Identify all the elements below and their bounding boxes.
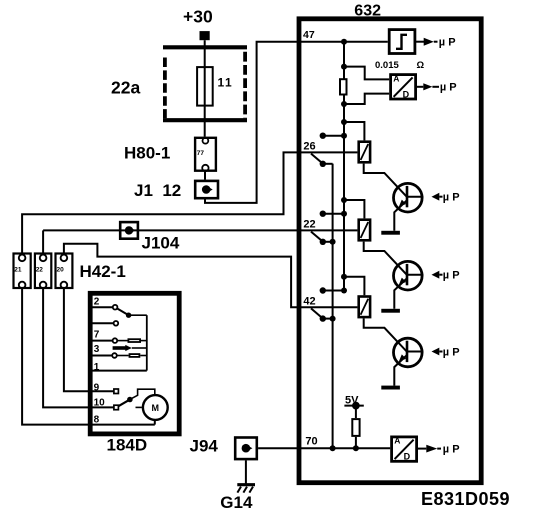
184D fuel pump motor M	[143, 395, 168, 420]
svg-text:D: D	[404, 452, 411, 462]
svg-text:11: 11	[218, 76, 234, 90]
svg-text:3: 3	[94, 344, 100, 355]
connector J104	[120, 222, 180, 252]
A/D converter U3 (pin 70)	[392, 436, 417, 462]
wire H42-1 pin20 to ECU pin 42	[64, 244, 358, 308]
184D second element row	[92, 353, 147, 358]
output transistor Q1	[394, 183, 424, 230]
svg-text:7: 7	[94, 330, 100, 341]
pin 26 label	[303, 141, 315, 153]
fuse holder box 22a (dashed sides)	[111, 47, 247, 120]
svg-text:J94: J94	[190, 437, 219, 456]
svg-text:D: D	[403, 89, 410, 99]
wire shunt top tap to A/D converter	[341, 64, 389, 80]
wire driver 2 to transistor 2 base	[364, 242, 407, 275]
arrow A/D U2 to microprocessor	[417, 82, 457, 94]
svg-text:0.015: 0.015	[375, 60, 399, 71]
diagram reference label E831D059	[421, 489, 510, 509]
svg-text:20: 20	[57, 267, 65, 274]
wire H42-1 pin22 through J104 to ECU pin 22	[43, 230, 357, 254]
svg-text:µ P: µ P	[443, 192, 460, 204]
184D pin 1 row	[92, 362, 147, 373]
svg-text:H80-1: H80-1	[124, 144, 170, 163]
output transistor Q2	[394, 261, 424, 308]
svg-text:E831D059: E831D059	[421, 489, 510, 509]
arrow schmitt output to microprocessor	[416, 37, 456, 49]
svg-text:µ P: µ P	[443, 346, 460, 358]
wire rail feed to driver 3	[341, 274, 364, 295]
184D internal bus wire	[146, 315, 148, 370]
184D pin 8 row to motor	[92, 415, 155, 426]
svg-text:+30: +30	[183, 7, 213, 27]
switch arm from pin 42 to feedback bus	[311, 308, 336, 321]
wire shunt bottom tap to A/D converter	[341, 94, 389, 107]
wire driver 1 to transistor 1 base	[364, 164, 407, 197]
schmitt trigger input stage U1	[389, 30, 415, 54]
svg-text:77: 77	[197, 150, 205, 157]
A/D converter U2 (current sense)	[391, 73, 416, 99]
pin 22 label	[303, 219, 315, 231]
184D pin 3 row wiper arrow	[94, 344, 147, 355]
switch arm from pin 22 to feedback bus	[311, 232, 336, 245]
svg-text:G14: G14	[220, 493, 253, 512]
svg-text:µ P: µ P	[440, 82, 457, 94]
svg-text:42: 42	[303, 296, 315, 308]
connector H80-1 (77)	[124, 138, 216, 171]
connector H42-1 housing pins 21 22 20	[14, 254, 126, 289]
svg-text:22: 22	[303, 219, 315, 231]
connector J1 pin 12	[134, 181, 218, 200]
sense stub junction above pin 42	[320, 287, 347, 293]
svg-text:22: 22	[36, 267, 44, 274]
wire H42-1 pin22 bottom to 184D pin 10	[43, 288, 90, 408]
svg-text:Ω: Ω	[417, 60, 425, 71]
svg-text:A: A	[394, 436, 400, 446]
svg-text:21: 21	[14, 267, 22, 274]
control unit 632 box	[299, 2, 481, 482]
wire H42-1 pin20 bottom to 184D pin 9	[64, 288, 90, 392]
wire driver 3 to transistor 3 base	[364, 318, 407, 351]
svg-text:A: A	[393, 73, 399, 83]
184D pin 7 row with element	[92, 330, 147, 343]
main supply rail inside 632	[341, 39, 347, 291]
svg-text:µ P: µ P	[439, 37, 456, 49]
shunt resistor 0.015 Ohm	[340, 60, 425, 95]
wire H80-1 to J1	[204, 172, 206, 180]
wire J94 to ground G14	[245, 460, 247, 483]
wire H42-1 pin21 to ECU pin 26	[22, 152, 357, 254]
svg-text:22a: 22a	[111, 78, 140, 98]
wire rail feed to driver 1	[341, 119, 364, 140]
wire from +30 terminal through fuse to H80-1	[204, 40, 206, 136]
ground bar for transistor Q1	[381, 231, 400, 235]
wire J94 to ECU pin 70	[258, 447, 297, 449]
184D pin 2 row with switch contact	[92, 297, 147, 318]
driver stage box channel 2	[359, 220, 370, 241]
svg-text:H42-1: H42-1	[80, 262, 126, 281]
svg-text:47: 47	[303, 29, 315, 41]
184D unlabeled contact row	[92, 321, 118, 326]
arrow A/D U3 to microprocessor	[418, 443, 460, 455]
svg-text:µ P: µ P	[443, 443, 460, 455]
sense stub junction above pin 26	[320, 133, 347, 139]
driver stage box channel 1	[359, 142, 370, 163]
wire from J1-12 up to ECU pin 47	[205, 42, 297, 203]
instrument unit 184D box	[90, 293, 179, 454]
fuse 11 element	[197, 67, 233, 106]
svg-text:J1 12: J1 12	[134, 181, 181, 200]
arrow microprocessor to transistor 3 base	[432, 346, 460, 358]
ground bar for transistor Q2	[381, 309, 400, 313]
wire rail feed to driver 2	[341, 197, 364, 218]
svg-text:26: 26	[303, 141, 315, 153]
switch arm from pin 26 to feedback bus	[311, 154, 333, 167]
driver stage box channel 3	[359, 297, 370, 318]
svg-text:184D: 184D	[107, 436, 148, 455]
184D pin 9 row	[92, 382, 118, 393]
wire H42-1 pin21 bottom to 184D pin 8	[22, 288, 90, 425]
arrow microprocessor to transistor 1 base	[432, 192, 460, 204]
feedback bus wire to pin 70 A/D	[332, 164, 334, 449]
pull-up resistor R1	[352, 406, 359, 449]
ground G14	[220, 485, 255, 512]
pin 42 label	[303, 296, 315, 308]
pin 70 label and wire	[297, 435, 391, 451]
svg-text:2: 2	[94, 297, 100, 308]
svg-text:70: 70	[305, 435, 317, 447]
5V supply terminal	[344, 395, 363, 410]
arrow microprocessor to transistor 2 base	[432, 270, 460, 282]
output transistor Q3	[394, 338, 424, 385]
connector J94	[190, 437, 257, 460]
sense stub junction above pin 22	[320, 211, 347, 217]
battery positive terminal +30	[183, 7, 213, 41]
ground bar for transistor Q3	[381, 386, 400, 390]
184D pin 10 row with motor switch	[92, 389, 155, 410]
svg-text:M: M	[152, 403, 160, 413]
pin 47 label and wire	[297, 29, 388, 42]
svg-text:J104: J104	[142, 234, 180, 253]
svg-text:632: 632	[354, 2, 381, 19]
svg-text:µ P: µ P	[443, 270, 460, 282]
